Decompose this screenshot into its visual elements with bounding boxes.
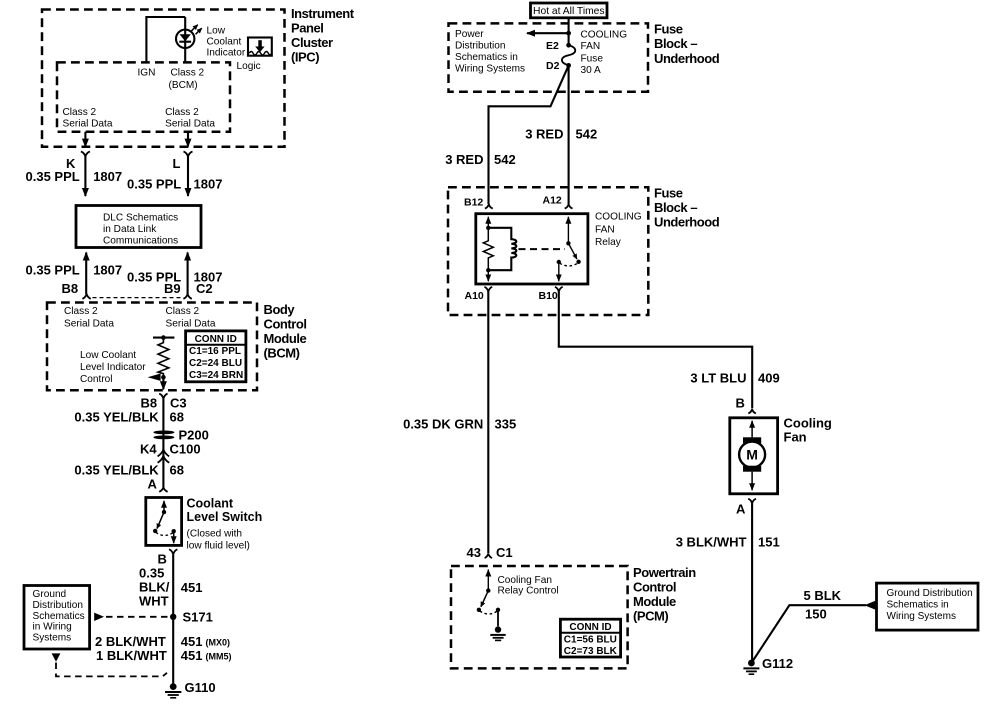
wire: K exit arrow from IPC — [84, 132, 86, 147]
svg-text:C1: C1 — [496, 545, 513, 560]
svg-text:Fuse: Fuse — [654, 186, 683, 201]
arrow from ground distribution box — [94, 613, 104, 621]
svg-text:WHT: WHT — [139, 593, 169, 608]
svg-text:30 A: 30 A — [581, 65, 601, 76]
svg-text:G112: G112 — [762, 656, 793, 671]
svg-text:low fluid level): low fluid level) — [187, 541, 250, 552]
wire: fan to G112 — [751, 504, 753, 663]
connector B12 — [485, 204, 493, 208]
svg-text:43: 43 — [467, 545, 481, 560]
connector K — [81, 152, 90, 157]
svg-text:Wiring Systems: Wiring Systems — [887, 611, 956, 622]
ground G112 — [748, 660, 755, 667]
svg-text:P200: P200 — [179, 428, 209, 443]
svg-text:Instrument: Instrument — [291, 6, 355, 21]
junction box: DLC Schematics in Data Link Communications — [76, 206, 201, 248]
svg-text:(BCM): (BCM) — [264, 346, 300, 361]
svg-text:409: 409 — [758, 371, 780, 386]
svg-text:1807: 1807 — [194, 177, 223, 192]
svg-text:Communications: Communications — [103, 236, 178, 247]
motor: Cooling Fan box — [730, 418, 778, 494]
svg-text:0.35 DK GRN: 0.35 DK GRN — [403, 417, 483, 432]
svg-text:3 BLK/WHT: 3 BLK/WHT — [676, 535, 747, 550]
arrow below reference box — [52, 653, 61, 661]
svg-text:0.35 PPL: 0.35 PPL — [26, 263, 80, 278]
wire: B10 to cooling fan — [559, 292, 752, 409]
svg-text:CONN ID: CONN ID — [569, 622, 611, 633]
svg-text:C1=56 BLU: C1=56 BLU — [564, 635, 617, 646]
wire: fuse to A12 — [568, 65, 570, 204]
svg-text:0.35 PPL: 0.35 PPL — [26, 169, 80, 184]
fuse: COOLING FAN Fuse 30 A — [566, 43, 571, 48]
CONN ID table (PCM) — [560, 619, 620, 657]
svg-text:Level Indicator: Level Indicator — [80, 362, 146, 373]
svg-text:Block –: Block – — [654, 200, 697, 215]
svg-text:A: A — [148, 477, 158, 492]
svg-text:Fan: Fan — [784, 430, 807, 445]
module box: Fuse Block - Underhood (relay) — [448, 187, 648, 315]
relay internals: switch branch — [567, 217, 569, 244]
svg-text:(Closed with: (Closed with — [187, 529, 243, 540]
svg-text:B: B — [736, 395, 745, 410]
svg-text:K4: K4 — [140, 442, 157, 457]
svg-text:B10: B10 — [539, 290, 558, 302]
svg-text:Ground Distribution: Ground Distribution — [887, 588, 973, 599]
svg-text:COOLING: COOLING — [595, 212, 642, 223]
svg-text:IGN: IGN — [138, 68, 156, 79]
wire K down — [84, 157, 86, 196]
svg-text:3 LT BLU: 3 LT BLU — [690, 371, 746, 386]
power tag: Hot at All Times — [531, 3, 608, 18]
svg-text:Distribution: Distribution — [455, 41, 506, 52]
svg-text:C100: C100 — [170, 442, 201, 457]
wire: dashed actuation link — [519, 248, 566, 250]
connector B10 — [555, 287, 563, 292]
inner IPC dashed box — [57, 62, 230, 131]
svg-text:Underhood: Underhood — [654, 51, 720, 66]
svg-text:G110: G110 — [185, 680, 216, 695]
connector A12 — [565, 204, 573, 208]
svg-text:FAN: FAN — [595, 225, 615, 236]
arrow: control direction — [148, 374, 161, 381]
wire: up arrow into DLC (left) — [85, 253, 87, 295]
wire: down arrow to BCM edge — [162, 377, 164, 389]
wire L down — [187, 157, 189, 196]
svg-text:C3: C3 — [170, 396, 187, 411]
switch: Coolant Level Switch box — [146, 498, 182, 546]
svg-text:542: 542 — [576, 127, 598, 142]
svg-text:(MX0): (MX0) — [206, 638, 231, 648]
svg-text:FAN: FAN — [581, 41, 601, 52]
svg-text:Level Switch: Level Switch — [187, 510, 263, 524]
svg-text:Schematics in: Schematics in — [455, 52, 518, 63]
connector A below fan — [748, 499, 756, 504]
svg-text:Serial Data: Serial Data — [165, 118, 215, 129]
ground (PCM internal) — [495, 626, 501, 632]
splice S171 — [170, 614, 176, 620]
svg-text:151: 151 — [758, 535, 780, 550]
svg-text:68: 68 — [170, 410, 184, 425]
svg-text:Relay Control: Relay Control — [498, 585, 559, 596]
svg-text:1807: 1807 — [93, 263, 122, 278]
svg-text:(IPC): (IPC) — [291, 50, 319, 65]
svg-text:Body: Body — [264, 302, 296, 317]
wire: fuse to B12 — [489, 65, 569, 204]
svg-text:E2: E2 — [546, 40, 559, 52]
wire lamp to Class 2 (BCM) — [184, 17, 186, 62]
svg-text:5 BLK: 5 BLK — [804, 588, 842, 603]
svg-text:B8: B8 — [141, 396, 158, 411]
svg-text:0.35 PPL: 0.35 PPL — [127, 177, 181, 192]
reference box: Ground Distribution Schematics in Wiring Systems (left) — [24, 586, 90, 650]
svg-text:3 RED: 3 RED — [445, 152, 483, 167]
relay coil — [488, 228, 516, 270]
svg-text:Fuse: Fuse — [581, 54, 604, 65]
svg-text:COOLING: COOLING — [581, 30, 628, 41]
connector A10 — [484, 287, 492, 292]
wire: L exit arrow from IPC — [187, 132, 189, 147]
wire: hot feed down to fuse — [568, 18, 570, 45]
svg-text:Class 2: Class 2 — [171, 68, 205, 79]
node: junction at hot feed — [566, 31, 571, 36]
module box: Body Control Module (BCM) — [47, 303, 257, 391]
connector below BCM — [159, 394, 167, 399]
svg-text:Control: Control — [264, 317, 307, 332]
svg-text:Cluster: Cluster — [291, 35, 333, 50]
wire: BCM to coolant level switch — [162, 399, 164, 487]
connector P200 — [153, 431, 174, 435]
connector C100 — [158, 456, 170, 463]
svg-text:2 BLK/WHT: 2 BLK/WHT — [95, 634, 166, 649]
svg-text:Class 2: Class 2 — [166, 306, 200, 317]
wire: dashed link between connectors — [93, 297, 183, 299]
module box: Fuse Block - Underhood (top) — [449, 23, 649, 91]
svg-text:B12: B12 — [464, 197, 483, 209]
svg-text:A: A — [736, 502, 746, 517]
logic box — [248, 38, 272, 56]
svg-text:B9: B9 — [164, 281, 181, 296]
svg-text:Control: Control — [633, 580, 676, 595]
svg-text:DLC Schematics: DLC Schematics — [103, 212, 178, 223]
svg-text:Serial Data: Serial Data — [166, 319, 216, 330]
svg-text:Power: Power — [455, 29, 484, 40]
module box: Powertrain Control Module (PCM) — [451, 566, 628, 668]
wire: 5 BLK to ground distribution — [751, 605, 866, 663]
svg-text:Hot at All Times: Hot at All Times — [533, 6, 605, 17]
reference box: Ground Distribution Schematics in Wiring Systems (right) — [877, 583, 979, 630]
svg-text:S171: S171 — [183, 610, 213, 625]
connector B at fan — [748, 409, 756, 413]
svg-text:Coolant: Coolant — [207, 37, 242, 48]
svg-text:Module: Module — [264, 331, 307, 346]
svg-text:542: 542 — [494, 152, 516, 167]
svg-text:C2: C2 — [196, 281, 213, 296]
svg-text:M: M — [746, 447, 758, 463]
relay internals: coil branch — [487, 217, 489, 228]
svg-text:D2: D2 — [546, 60, 560, 72]
svg-text:Control: Control — [80, 374, 113, 385]
svg-text:C2=73 BLK: C2=73 BLK — [564, 646, 618, 657]
connector C1 at PCM — [485, 553, 492, 558]
svg-text:3 RED: 3 RED — [525, 127, 563, 142]
svg-text:451: 451 — [181, 580, 203, 595]
svg-text:Underhood: Underhood — [654, 215, 720, 230]
svg-text:C2=24 BLU: C2=24 BLU — [189, 358, 242, 369]
svg-text:B: B — [158, 552, 167, 567]
svg-text:1 BLK/WHT: 1 BLK/WHT — [96, 648, 167, 663]
svg-text:Schematics in: Schematics in — [887, 600, 949, 611]
svg-text:Distribution: Distribution — [33, 600, 84, 611]
CONN ID table (BCM) — [186, 331, 246, 382]
wire: switch to G110 — [172, 555, 174, 687]
svg-text:0.35: 0.35 — [139, 566, 164, 581]
wire: dashed reference to S171 — [106, 616, 168, 618]
svg-text:1807: 1807 — [93, 169, 122, 184]
svg-text:Schematics: Schematics — [33, 611, 85, 622]
svg-text:Serial Data: Serial Data — [63, 118, 113, 129]
svg-text:335: 335 — [495, 417, 517, 432]
svg-text:0.35 YEL/BLK: 0.35 YEL/BLK — [74, 410, 159, 425]
svg-text:Systems: Systems — [33, 633, 72, 644]
svg-text:Cooling: Cooling — [784, 416, 832, 431]
svg-text:B8: B8 — [62, 281, 79, 296]
indicator lamp: Low Coolant Indicator — [176, 30, 194, 48]
relay: COOLING FAN Relay box — [476, 214, 588, 284]
switch internals — [163, 501, 165, 512]
svg-text:Panel: Panel — [291, 21, 323, 36]
svg-text:A10: A10 — [465, 290, 484, 302]
svg-text:451: 451 — [181, 634, 203, 649]
svg-text:Serial Data: Serial Data — [64, 319, 114, 330]
wire: up arrow into DLC (right) — [187, 253, 189, 295]
svg-text:Fuse: Fuse — [654, 22, 683, 37]
ground G110 — [170, 683, 177, 690]
svg-text:Class 2: Class 2 — [63, 107, 97, 118]
connector B8 at BCM — [82, 294, 90, 299]
svg-text:68: 68 — [170, 463, 184, 478]
svg-text:(PCM): (PCM) — [633, 609, 668, 624]
svg-text:0.35 YEL/BLK: 0.35 YEL/BLK — [74, 463, 159, 478]
svg-text:(BCM): (BCM) — [169, 80, 198, 91]
svg-text:Module: Module — [633, 594, 676, 609]
svg-text:Wiring Systems: Wiring Systems — [455, 64, 525, 75]
svg-text:Relay: Relay — [595, 237, 622, 248]
svg-text:BLK/: BLK/ — [139, 580, 170, 595]
svg-text:C1=16 PPL: C1=16 PPL — [189, 346, 241, 357]
svg-text:L: L — [173, 156, 181, 171]
svg-text:in Data Link: in Data Link — [103, 224, 157, 235]
svg-text:451: 451 — [181, 648, 203, 663]
module box: Instrument Panel Cluster (IPC) — [42, 10, 285, 147]
svg-text:Ground: Ground — [33, 589, 67, 600]
wire: A10 down to PCM — [487, 292, 489, 553]
svg-text:(MM5): (MM5) — [206, 651, 232, 661]
wire: dashed reference to G110 wire — [56, 663, 167, 677]
wire: arrow to power distribution — [527, 32, 569, 34]
svg-text:Class 2: Class 2 — [165, 107, 199, 118]
svg-text:in Wiring: in Wiring — [33, 622, 72, 633]
svg-text:Class 2: Class 2 — [64, 306, 98, 317]
svg-text:Low Coolant: Low Coolant — [80, 350, 136, 361]
svg-text:A12: A12 — [543, 195, 562, 207]
svg-text:Logic: Logic — [237, 61, 261, 72]
connector A at switch — [159, 487, 167, 492]
svg-text:Low: Low — [207, 26, 226, 37]
resistor (BCM internal) — [153, 337, 174, 339]
svg-text:Powertrain: Powertrain — [633, 565, 696, 580]
wire IGN to lamp — [146, 17, 185, 62]
svg-text:Block –: Block – — [654, 36, 697, 51]
connector B below switch — [169, 549, 177, 554]
svg-text:150: 150 — [805, 606, 827, 621]
svg-text:CONN ID: CONN ID — [195, 334, 237, 345]
connector L — [184, 152, 193, 157]
connector B9 at BCM — [183, 294, 191, 299]
svg-text:Coolant: Coolant — [187, 497, 234, 511]
svg-text:Indicator: Indicator — [207, 48, 246, 59]
PCM internals: relay control driver — [487, 570, 489, 591]
svg-text:C3=24 BRN: C3=24 BRN — [189, 370, 243, 381]
